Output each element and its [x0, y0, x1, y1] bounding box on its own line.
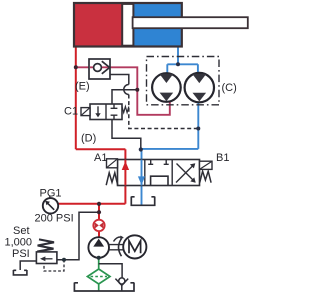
node: relief tap dot: [62, 258, 66, 262]
node: crimson/black junction dot: [135, 88, 139, 92]
wire: green pump suction to filter to tank: [98, 258, 100, 291]
node: dot pilot line joins blue line: [196, 127, 200, 131]
wire: black C1 top port to crimson junction: [112, 90, 137, 104]
check valve (E) pilot operated: [89, 59, 110, 79]
electric motor M1: [123, 235, 146, 258]
directional valve 4/3 body: [118, 160, 200, 186]
flow divider (C) dash-dot enclosure: [147, 57, 220, 105]
svg-text:1,000: 1,000: [5, 237, 33, 249]
tank for relief valve: [13, 270, 27, 275]
check valve at tank (anti-cavitation): [115, 278, 128, 286]
valve center position blocked ports and tandem box: [148, 160, 169, 186]
relief valve RV1: [36, 239, 57, 263]
pump P1: [88, 237, 109, 258]
node: dot blue/black junction above valve: [139, 147, 143, 151]
svg-text:(D): (D): [81, 133, 96, 145]
suction filter: [87, 269, 110, 284]
node: pump suction dot: [97, 256, 101, 260]
blue B-T arrow through valve: [138, 160, 145, 186]
wire: blue T line through valve to tank: [141, 150, 143, 205]
svg-text:(E): (E): [75, 81, 90, 93]
wire: black relief tap line: [57, 212, 99, 260]
cylinder (A) barrel with red cap side, piston, blue rod side: [74, 3, 182, 47]
solenoid valve C1 (D) 2/2: [81, 104, 129, 120]
valve left solenoid box: [107, 159, 118, 168]
valve right position crossed arrows: [176, 163, 196, 183]
main tank: [74, 283, 134, 292]
node: dots on red riser: [97, 202, 101, 206]
tank under valve T port: [131, 197, 154, 206]
wire: black C1 bottom port to blue junction: [112, 120, 141, 150]
svg-text:PSI: PSI: [12, 248, 30, 260]
node: blue manifold junction dot: [176, 62, 180, 66]
svg-text:200 PSI: 200 PSI: [35, 212, 74, 224]
wire: blue rod-end line from cylinder to divider manifold: [167, 47, 198, 74]
wire: cylinder cap-end red line down left side: [75, 47, 77, 150]
svg-text:(C): (C): [222, 82, 237, 94]
cylinder rod: [133, 17, 248, 28]
svg-text:A1: A1: [94, 152, 107, 164]
wire: relief valve outlet to tank: [20, 261, 36, 270]
valve left spring: [106, 173, 118, 185]
svg-text:B1: B1: [216, 152, 229, 164]
svg-text:Set: Set: [13, 225, 30, 237]
wire: relief pilot dashed loop: [44, 260, 64, 271]
shaft and coupling to motor: [109, 236, 124, 257]
red P-A arrow through valve: [122, 160, 129, 186]
wire: black suction bypass branch to check valve: [99, 264, 122, 291]
wire: red P line valve to gauge with pump riser: [58, 149, 126, 237]
valve right solenoid box: [200, 161, 213, 169]
wire: pilot line from check valve (E) with jump over, dashed to blue line: [110, 75, 198, 129]
svg-text:PG1: PG1: [40, 188, 62, 200]
wire: crimson pilot-check line through (E) to flow divider: [76, 67, 170, 115]
svg-text:C1: C1: [64, 106, 78, 118]
wire: blue line right circle bottom to B junction: [141, 102, 199, 149]
quick disconnect red coupler: [93, 220, 104, 231]
wire: A1 red loop from left riser to valve A port: [76, 148, 126, 150]
valve right spring: [200, 171, 211, 183]
pressure gauge PG1: [43, 196, 58, 214]
flow divider motor section left: [152, 73, 181, 102]
flow divider motor section right: [185, 73, 214, 102]
node: junction dot on red line to (E): [74, 65, 78, 69]
